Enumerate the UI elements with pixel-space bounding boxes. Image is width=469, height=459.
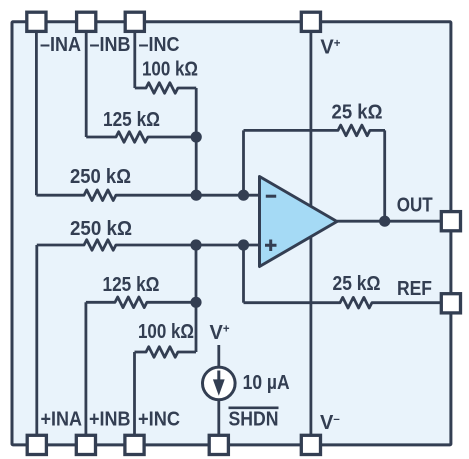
svg-text:25 kΩ: 25 kΩ [333,273,381,295]
wire -INA stub [35,32,38,195]
wire -INC stub [133,32,136,88]
junction node (125k/100k neg) [191,131,202,142]
svg-text:250 kΩ: 250 kΩ [70,218,132,240]
SHDN overline [229,406,279,409]
junction dots [190,131,390,308]
pin pad -INC [125,12,144,31]
resistor 125k (-INB branch) [86,132,196,143]
op-amp non-inverting input marker [265,240,277,252]
pin pad V+ [301,12,320,31]
svg-text:100 kΩ: 100 kΩ [142,59,198,81]
svg-text:+INC: +INC [138,409,180,431]
svg-text:125 kΩ: 125 kΩ [103,274,160,296]
wire -INB stub [85,32,88,137]
pin pad SHDN [209,435,228,454]
wire feedback top riser [242,130,245,195]
pin pad -INB [77,12,96,31]
junction node inverting input [191,190,202,201]
svg-text:100 kΩ: 100 kΩ [138,321,194,343]
resistor 100k (+INC branch) [135,347,197,358]
wire +INB stub [85,302,88,434]
svg-text:125 kΩ: 125 kΩ [103,109,160,131]
op-amp U1 [260,177,338,267]
junction node output/feedback [379,216,390,227]
svg-text:SHDN: SHDN [229,409,279,431]
junction node ref/non-inverting [238,239,249,250]
wire top node vertical [195,88,198,195]
svg-text:–INC: –INC [139,34,180,56]
svg-text:+INA: +INA [41,409,83,431]
pin pad +INA [27,435,46,454]
resistor 100k (-INC branch) [135,83,196,94]
junction node feedback/inverting [238,190,249,201]
pin pad -INA [27,12,46,31]
pin pad +INC [125,435,144,454]
resistor 25k (REF path) [244,297,451,308]
wire op-amp output to OUT pin [337,220,450,223]
resistor 125k (+INB branch) [86,297,196,308]
current source I1 10uA [203,367,236,400]
wire V+ to V- vertical rail [309,32,312,435]
svg-text:REF: REF [397,278,432,300]
svg-text:10 µA: 10 µA [243,372,290,394]
wire V+ stub to current source [217,345,220,367]
junction node (125k/100k pos) [190,297,201,308]
pin pad REF [441,294,460,313]
svg-text:+INB: +INB [89,409,131,431]
svg-text:–INA: –INA [40,34,81,56]
wire bottom node vertical [195,245,198,352]
junction node non-inverting input [190,239,201,250]
svg-text:OUT: OUT [397,194,433,216]
op-amp inverting input marker [266,195,276,198]
wire +INA stub [35,245,38,435]
wire +INC stub [133,352,136,435]
svg-text:–INB: –INB [90,34,131,56]
svg-text:25 kΩ: 25 kΩ [332,102,383,124]
wire feedback bottom dropper [242,245,245,303]
pin pad +INB [76,435,95,454]
wire current source to SHDN pin [217,400,220,435]
wire feedback top drop [383,130,386,221]
pin pad V- [301,435,320,454]
resistor 250k (-INA to inverting node) [36,190,259,201]
pin pad OUT [441,212,460,231]
resistor 25k feedback (to OUT) [244,125,386,136]
svg-text:250 kΩ: 250 kΩ [70,166,131,188]
resistor 250k (+INA to non-inverting node) [37,240,260,251]
wires and resistors [36,32,450,435]
